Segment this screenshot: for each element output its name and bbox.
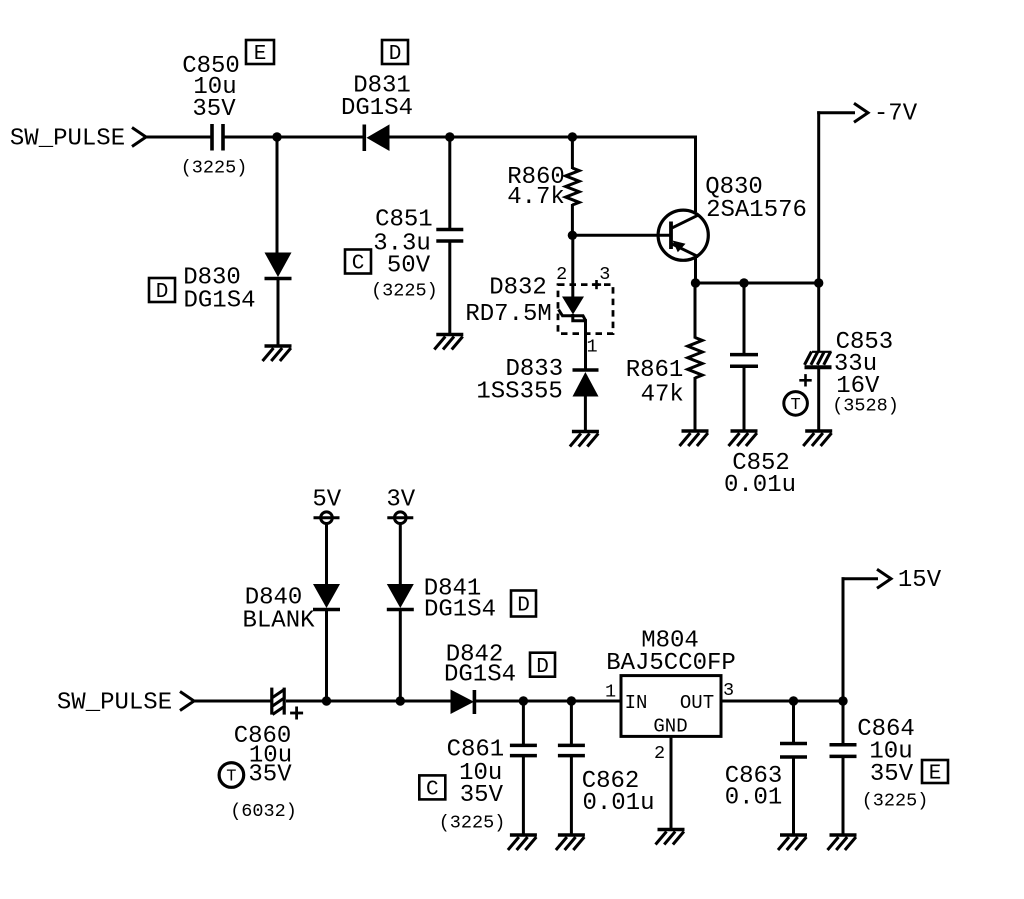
wire node A down to D830 [276,137,279,253]
svg-text:C: C [426,779,439,802]
svg-text:35V: 35V [870,761,914,788]
svg-text:OUT: OUT [680,692,714,714]
svg-text:5V: 5V [312,487,341,514]
wire 3V to D841 [399,524,402,585]
ground (D830) [263,346,292,361]
svg-text:35V: 35V [192,96,236,123]
svg-text:BAJ5CC0FP: BAJ5CC0FP [606,650,736,677]
svg-text:RD7.5M: RD7.5M [465,301,551,328]
ground (C852) [729,431,758,446]
svg-text:D: D [156,281,169,304]
boxed letter C (C851) [345,250,371,276]
svg-text:3: 3 [599,264,610,285]
ground (M804 GND) [656,830,685,845]
wire node B down to C851 [448,137,451,229]
node I junction (400.3,701) [396,696,405,705]
capacitor C864 (to ground) [830,701,857,834]
ground (C864) [828,835,857,850]
node G junction (818.7,283) [814,278,823,287]
D833 labels [476,356,563,406]
resistor R861 [688,283,703,430]
capacitor C851 (to ground) [436,230,463,242]
node K junction (571.4,701) [567,696,576,705]
svg-text:SW_PULSE: SW_PULSE [57,690,172,717]
capacitor C852 (to ground) [730,283,758,430]
svg-text:1SS355: 1SS355 [476,378,562,405]
svg-text:0.01: 0.01 [725,785,783,812]
svg-text:D: D [389,43,402,66]
svg-text:15V: 15V [898,567,942,594]
wire SW_PULSE to C850 [145,136,211,139]
svg-text:DG1S4: DG1S4 [341,95,413,122]
input chevron (bottom SW_PULSE) [180,692,194,711]
net label SW_PULSE (bottom input) [57,690,172,717]
wire 15V horizontal [842,577,879,580]
svg-text:0.01u: 0.01u [582,790,654,817]
ground (R861) [680,431,709,446]
boxed letter D (D831) [382,40,408,66]
wire C860 to D842 [286,700,451,703]
svg-text:D832: D832 [489,275,547,302]
wire D842 to M804 IN [476,700,621,703]
D832 polarity plus [592,280,601,289]
M804 pin name GND [653,715,687,737]
svg-text:DG1S4: DG1S4 [424,597,496,624]
net label 3V [386,487,415,514]
emitter rail y=283 [696,282,819,285]
ground (C861) [508,835,537,850]
svg-text:C: C [352,253,365,276]
node A junction (277,137) [272,132,281,141]
net label 15V [898,567,942,594]
D832 pin number 1 [586,337,597,358]
R861 labels [626,357,684,409]
svg-text:4.7k: 4.7k [507,184,565,211]
output chevron -7V [854,103,868,122]
ground (D833) [570,432,599,447]
D831 labels [341,73,413,123]
svg-text:47k: 47k [641,381,684,408]
wire -7V riser [817,111,820,283]
net label -7V [874,100,918,127]
svg-text:3: 3 [723,680,734,701]
svg-text:2: 2 [654,743,665,764]
node F junction (744,283) [739,278,748,287]
node E junction (695.5,283) [691,278,700,287]
diode D831 (series, pointing left) [364,124,389,151]
D832 pin number 3 [599,264,610,285]
dashed package box (D832) [558,285,613,334]
svg-text:E: E [929,763,942,786]
svg-text:1: 1 [586,337,597,358]
D842 labels [444,642,516,689]
wire D832 cathode jog to pin1 line [573,314,586,371]
boxed letter E (C850) [246,40,274,66]
svg-text:IN: IN [625,692,648,714]
C862 labels [582,768,655,817]
power terminal 5V [314,512,340,524]
wire SW_PULSE to C860 [193,700,271,703]
diode D842 (series, pointing right) [451,690,475,715]
R860 labels [507,164,565,211]
wire 15V riser [842,577,845,701]
svg-text:(6032): (6032) [230,801,297,822]
svg-text:SW_PULSE: SW_PULSE [10,126,125,153]
svg-text:3V: 3V [386,487,415,514]
regulator U1 M804 BAJ5CC0FP box [621,676,721,737]
svg-text:50V: 50V [387,253,431,280]
wire 5V to D840 [325,524,328,585]
svg-text:E: E [254,43,267,66]
svg-text:(3225): (3225) [181,157,248,178]
D841 labels [424,576,496,624]
resistor R860 [566,137,580,235]
C863 labels [725,763,783,812]
wire base rail (572.4,235.3) to Q830 base [572,234,670,237]
svg-text:(3528): (3528) [832,395,899,416]
wire -7V horizontal [817,111,855,114]
svg-text:(3225): (3225) [862,790,929,811]
D832 pin number 2 [556,264,567,285]
M804 pin number 1 [605,681,616,702]
D840 labels [242,585,315,635]
node C junction (572.4,137) [568,132,577,141]
diode D830 (to ground) [265,253,292,346]
svg-text:BLANK: BLANK [242,608,315,635]
wire corner down to Q830 collector [694,136,697,213]
svg-text:1: 1 [605,681,616,702]
wire M804 GND pin to ground [670,736,673,828]
ground (C851) [434,335,463,350]
diode D833 (to ground, pointing up) [573,370,599,430]
M804 labels [606,628,736,678]
boxed letter D (D830) [149,278,175,304]
capacitor C860 (series, polarized hatched) [272,688,284,715]
wire node D down to zener D832 [571,235,574,297]
C853 polarity plus [799,374,811,386]
capacitor C862 (to ground) [558,701,585,834]
node J junction (523.4,701) [519,696,528,705]
svg-text:T: T [790,396,800,415]
ground (C862) [556,835,585,850]
capacitor C850 (series) [212,124,223,151]
net label SW_PULSE (top input) [10,126,125,153]
C852 labels [724,450,796,499]
C864 labels [857,716,928,811]
C860 polarity plus [290,707,303,720]
svg-text:35V: 35V [248,762,292,789]
power terminal 3V [387,512,413,524]
ground (C863) [778,835,807,850]
M804 pin number 2 [654,743,665,764]
node B junction (449.8,137) [445,132,454,141]
Q830 labels [705,174,807,224]
svg-text:T: T [226,767,236,786]
svg-text:D: D [536,656,549,679]
D830 labels [183,265,255,315]
temperature mark T (C860) [219,763,244,788]
boxed letter E (C864) [922,760,948,786]
diode D841 (from 3V, pointing down) [387,584,414,701]
wire Q830 emitter down to rail [694,257,697,284]
M804 pin name OUT [680,692,714,714]
svg-text:(3225): (3225) [439,813,506,834]
ground (C853) [803,431,832,446]
svg-text:R861: R861 [626,357,684,384]
input chevron (top SW_PULSE) [132,128,146,147]
C861 labels [439,737,506,834]
boxed letter D (D841) [511,591,536,618]
boxed letter C (C861) [419,775,445,801]
M804 pin number 3 [723,680,734,701]
node M junction (843,701) [838,696,847,705]
M804 pin name IN [625,692,648,714]
capacitor C861 (to ground) [510,701,537,834]
svg-text:(3225): (3225) [371,280,438,301]
C860 labels [230,723,297,822]
svg-text:2: 2 [556,264,567,285]
wire C851 to ground [448,242,451,333]
D832 labels [465,275,551,329]
node L junction (793.5,701) [789,696,798,705]
svg-text:35V: 35V [460,782,504,809]
wire D831 to corner above Q830 [388,136,697,139]
transistor Q830 2SA1576 (PNP) [658,210,708,260]
capacitor C863 (to ground) [780,701,807,757]
svg-text:D: D [517,595,530,618]
svg-text:GND: GND [653,715,687,737]
diode D840 (from 5V, pointing down) [313,584,340,701]
C853 labels [832,329,899,416]
svg-text:DG1S4: DG1S4 [444,662,516,689]
svg-text:-7V: -7V [874,100,918,127]
C850 labels [181,53,248,178]
zener diode D832 RD7.5M [559,297,586,321]
boxed letter D (D842) [530,653,555,679]
wire C863 to ground [792,758,795,834]
C851 labels [371,207,438,302]
node H junction (326.5,701) [322,696,331,705]
svg-text:DG1S4: DG1S4 [183,288,255,315]
capacitor C853 (electrolytic, to ground) [805,283,832,430]
wire M804 OUT to 15V node [721,700,843,703]
wire C850 to D831 [225,136,365,139]
temperature mark T (C853) [784,392,808,416]
net label 5V [312,487,341,514]
output chevron 15V [877,569,891,588]
svg-text:2SA1576: 2SA1576 [706,197,807,224]
svg-text:0.01u: 0.01u [724,472,796,499]
node D junction (572.4,235.3) [568,231,577,240]
